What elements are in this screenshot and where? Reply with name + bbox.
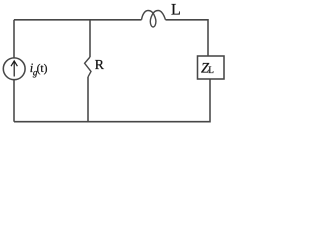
svg-text:(t): (t) — [37, 63, 48, 75]
wire top horizontal (source node to inductor) — [14, 19, 142, 21]
current source ig circle — [3, 58, 25, 80]
wire top-right horizontal and vertical down to load box — [166, 20, 209, 56]
wire middle branch upper (top wire down to resistor) — [89, 20, 91, 57]
svg-text:R: R — [95, 58, 105, 73]
wire left vertical lower (current source to bottom node) — [13, 80, 15, 122]
inductor L — [142, 11, 166, 28]
wire left vertical upper (top node to current source) — [13, 20, 15, 58]
svg-text:L: L — [208, 65, 214, 75]
svg-text:L: L — [171, 2, 181, 19]
load impedance box ZL — [198, 56, 225, 79]
current source arrow (upward) — [11, 61, 17, 77]
wire middle branch lower (resistor down to bottom wire) — [87, 77, 89, 122]
wire right vertical below load box and bottom horizontal return — [14, 79, 210, 122]
resistor R zigzag — [85, 57, 91, 77]
